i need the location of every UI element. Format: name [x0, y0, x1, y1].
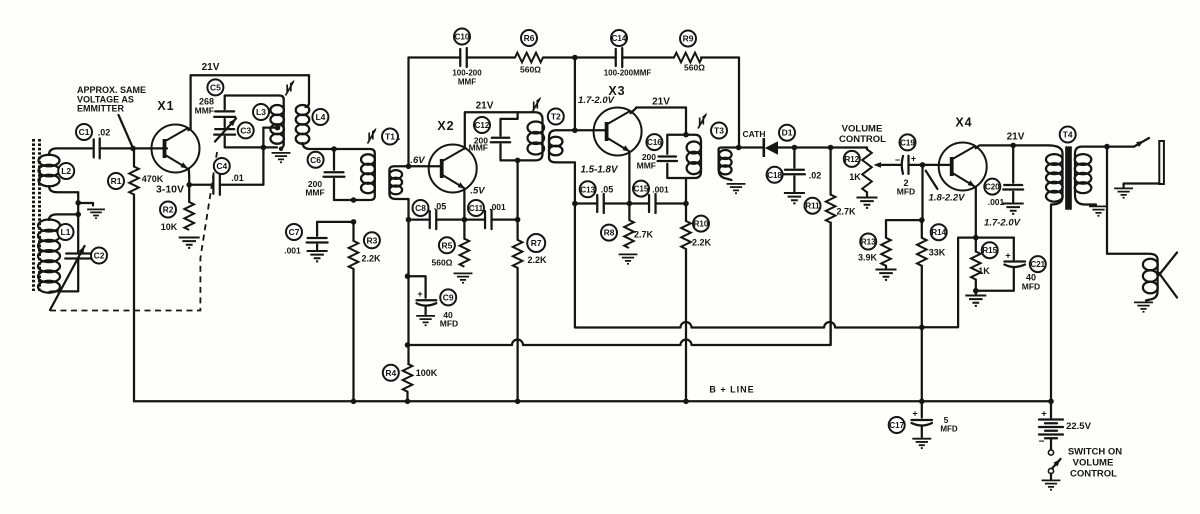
svg-text:C3: C3 — [240, 125, 251, 135]
svg-text:EMMITTER: EMMITTER — [77, 104, 124, 114]
svg-text:.6V: .6V — [410, 155, 425, 166]
svg-text:R6: R6 — [524, 33, 535, 43]
svg-text:3-10V: 3-10V — [156, 184, 184, 196]
svg-text:SWITCH ON: SWITCH ON — [1068, 447, 1122, 458]
svg-text:MFD: MFD — [440, 319, 458, 329]
svg-text:R7: R7 — [531, 238, 542, 248]
svg-text:L2: L2 — [61, 166, 71, 176]
svg-text:L4: L4 — [315, 112, 325, 122]
svg-text:C18: C18 — [767, 171, 782, 180]
svg-text:T2: T2 — [551, 112, 561, 122]
svg-text:.05: .05 — [434, 202, 447, 212]
svg-text:C5: C5 — [210, 82, 221, 92]
svg-text:R11: R11 — [805, 202, 820, 211]
svg-text:B + LINE: B + LINE — [709, 385, 754, 395]
svg-text:21V: 21V — [1007, 132, 1025, 143]
svg-text:5: 5 — [944, 415, 949, 425]
svg-text:MMF: MMF — [305, 188, 324, 198]
svg-text:−: − — [895, 155, 900, 165]
svg-text:R12: R12 — [844, 155, 859, 164]
svg-text:1.7-2.0V: 1.7-2.0V — [984, 218, 1021, 229]
svg-text:10K: 10K — [161, 222, 178, 232]
svg-text:R13: R13 — [861, 238, 876, 247]
svg-text:R14: R14 — [931, 228, 946, 237]
svg-text:C15: C15 — [634, 185, 649, 194]
svg-text:.02: .02 — [98, 128, 111, 138]
svg-text:C4: C4 — [216, 161, 227, 171]
svg-text:2.2K: 2.2K — [527, 255, 547, 265]
svg-text:R10: R10 — [694, 220, 709, 229]
svg-text:.05: .05 — [601, 185, 614, 195]
svg-text:MFD: MFD — [940, 425, 958, 434]
svg-text:MMF: MMF — [458, 78, 476, 87]
svg-text:C17: C17 — [889, 421, 904, 430]
svg-text:R2: R2 — [163, 205, 174, 215]
svg-text:1K: 1K — [978, 266, 990, 276]
svg-text:X1: X1 — [157, 99, 174, 113]
svg-text:R8: R8 — [604, 228, 615, 238]
svg-text:−: − — [1039, 437, 1045, 448]
svg-text:R5: R5 — [441, 240, 452, 250]
svg-text:3.9K: 3.9K — [858, 253, 878, 263]
svg-text:C16: C16 — [647, 138, 662, 147]
svg-text:.001: .001 — [489, 202, 506, 212]
svg-text:T1: T1 — [385, 132, 395, 142]
svg-text:L1: L1 — [61, 227, 71, 237]
svg-text:MMF: MMF — [195, 106, 214, 116]
svg-text:T4: T4 — [1063, 130, 1073, 140]
svg-text:.001: .001 — [988, 197, 1005, 207]
svg-text:L3: L3 — [256, 107, 266, 117]
svg-text:R3: R3 — [366, 235, 377, 245]
svg-text:C19: C19 — [900, 138, 915, 147]
svg-text:C10: C10 — [455, 33, 470, 42]
svg-text:+: + — [912, 409, 917, 419]
svg-text:C21: C21 — [1030, 260, 1045, 269]
svg-text:CONTROL: CONTROL — [1070, 469, 1117, 480]
svg-text:MFD: MFD — [897, 187, 915, 197]
svg-text:560Ω: 560Ω — [432, 258, 453, 268]
svg-text:1.5-1.8V: 1.5-1.8V — [580, 165, 619, 176]
svg-text:.5V: .5V — [470, 186, 485, 197]
svg-text:C1: C1 — [79, 127, 90, 137]
svg-text:21V: 21V — [202, 62, 220, 73]
svg-text:R15: R15 — [982, 246, 997, 255]
svg-text:C20: C20 — [985, 183, 1000, 192]
svg-text:21V: 21V — [476, 101, 494, 112]
svg-text:1.8-2.2V: 1.8-2.2V — [929, 193, 966, 204]
svg-text:MMF: MMF — [469, 143, 488, 153]
svg-text:100-200MMF: 100-200MMF — [604, 69, 652, 78]
svg-text:.001: .001 — [284, 246, 301, 256]
svg-text:100K: 100K — [416, 368, 438, 378]
svg-text:+: + — [1041, 409, 1047, 420]
svg-text:2.7K: 2.7K — [836, 207, 856, 217]
svg-text:D1: D1 — [782, 128, 793, 138]
svg-text:R1: R1 — [111, 176, 122, 186]
svg-text:C13: C13 — [580, 185, 595, 194]
svg-text:MFD: MFD — [1022, 282, 1040, 292]
svg-text:CATH: CATH — [743, 129, 766, 139]
svg-text:VOLUME: VOLUME — [1073, 458, 1114, 469]
svg-text:.: . — [398, 132, 401, 143]
svg-text:VOLUME: VOLUME — [842, 124, 883, 135]
svg-text:1.7-2.0V: 1.7-2.0V — [578, 95, 615, 106]
svg-text:560Ω: 560Ω — [520, 65, 541, 75]
svg-text:+: + — [417, 289, 422, 299]
svg-text:1K: 1K — [849, 172, 861, 182]
svg-text:MMF: MMF — [637, 161, 656, 171]
svg-text:22.5V: 22.5V — [1066, 421, 1091, 432]
svg-text:21V: 21V — [652, 97, 670, 108]
svg-text:33K: 33K — [929, 248, 946, 258]
svg-text:+: + — [1005, 251, 1010, 261]
svg-text:X4: X4 — [955, 116, 972, 130]
svg-text:560Ω: 560Ω — [684, 63, 705, 73]
svg-text:CONTROL: CONTROL — [839, 134, 886, 145]
svg-text:+: + — [911, 154, 916, 164]
svg-text:.001: .001 — [652, 185, 669, 195]
svg-text:C12: C12 — [475, 121, 490, 130]
svg-text:C6: C6 — [310, 155, 321, 165]
svg-text:T3: T3 — [714, 126, 724, 136]
svg-text:2.2K: 2.2K — [692, 238, 712, 248]
svg-text:.01: .01 — [231, 173, 244, 183]
svg-text:C8: C8 — [415, 203, 426, 213]
svg-text:C9: C9 — [443, 292, 454, 302]
svg-text:C11: C11 — [469, 204, 484, 213]
svg-text:.02: .02 — [809, 171, 822, 181]
svg-text:APPROX. SAME: APPROX. SAME — [77, 85, 146, 95]
svg-text:470K: 470K — [142, 174, 164, 184]
svg-text:100-200: 100-200 — [452, 69, 482, 78]
svg-text:R9: R9 — [683, 34, 694, 44]
svg-text:2.7K: 2.7K — [634, 230, 654, 240]
svg-text:2.2K: 2.2K — [361, 254, 381, 264]
svg-text:C14: C14 — [612, 34, 627, 43]
svg-text:C2: C2 — [94, 251, 105, 261]
svg-text:R4: R4 — [385, 368, 396, 378]
svg-text:X2: X2 — [437, 119, 454, 133]
svg-text:C7: C7 — [289, 227, 300, 237]
